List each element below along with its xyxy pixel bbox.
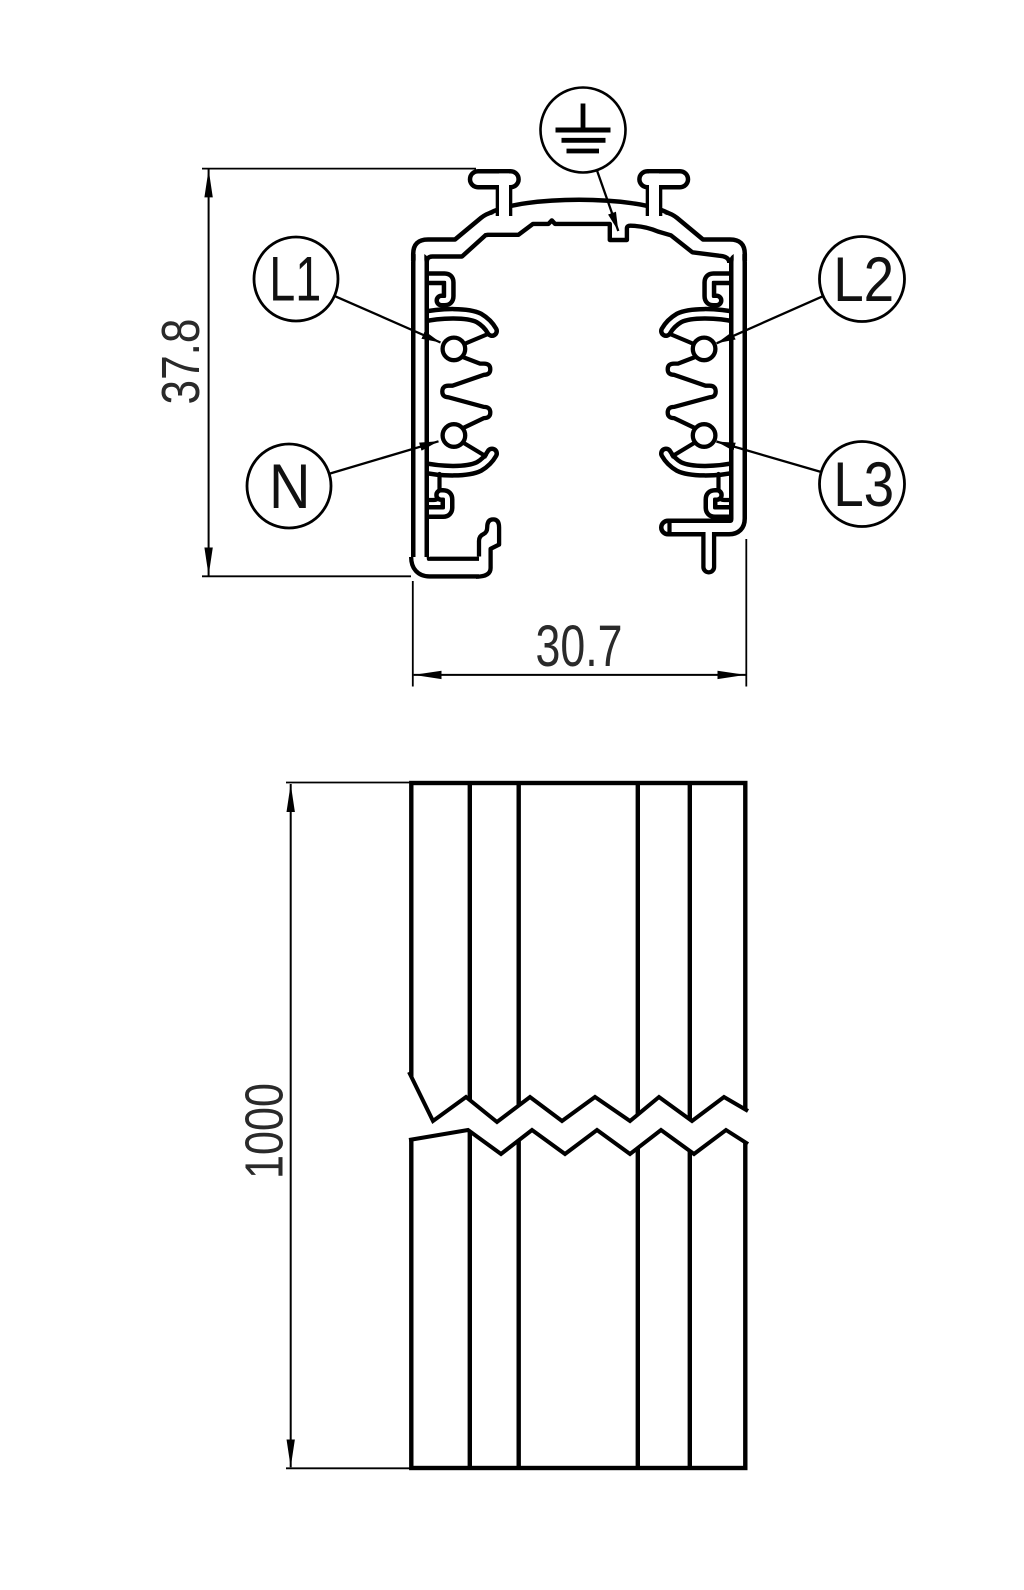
label balloon L1 xyxy=(254,237,338,321)
ground leader arrow xyxy=(597,171,618,232)
wall slot rib (right) xyxy=(719,474,730,500)
label balloon N xyxy=(247,444,331,528)
svg-text:L3: L3 xyxy=(833,450,894,520)
dimension 37.8 xyxy=(202,169,476,577)
arch outer arc line xyxy=(490,200,668,213)
dimension 1000 xyxy=(286,783,411,1469)
right foot stem (white pass) xyxy=(706,528,712,568)
leader L3 xyxy=(716,442,821,473)
dimension 30.7 xyxy=(413,539,747,687)
conductor L2 xyxy=(693,338,716,361)
label balloon L3 xyxy=(820,442,905,527)
conductor L3 xyxy=(693,424,716,447)
wall top cap cleanup patches xyxy=(416,246,425,272)
break line upper xyxy=(409,1072,748,1122)
break line lower xyxy=(409,1130,748,1154)
extrusion left foot bar (black pass) xyxy=(420,557,479,568)
ground symbol balloon xyxy=(541,88,626,173)
label balloon L2 xyxy=(820,237,905,322)
side elevation view of track xyxy=(411,783,745,1468)
extrusion right wall and foot bar (black pass) xyxy=(668,262,738,528)
svg-text:1000: 1000 xyxy=(235,1083,295,1179)
extrusion left wall (white pass) xyxy=(416,262,425,563)
right shoulder outer contour xyxy=(665,212,745,261)
svg-text:N: N xyxy=(269,452,311,522)
upper contact spring fin (right) xyxy=(666,314,738,331)
inner ceiling line with keying notch xyxy=(427,220,730,263)
lower contact spring fin (right) xyxy=(666,454,738,471)
wall slot rib (left) xyxy=(429,474,440,500)
svg-text:30.7: 30.7 xyxy=(536,614,623,679)
leader L2 xyxy=(717,296,824,343)
extrusion left foot bar (white pass) xyxy=(420,557,479,568)
conductor clamp links left xyxy=(463,334,488,457)
left wall insulator fins xyxy=(420,278,492,512)
bottom hook fin (left) xyxy=(420,495,448,512)
conductor N xyxy=(443,424,466,447)
svg-text:L1: L1 xyxy=(269,244,321,314)
right foot bar end inner line xyxy=(667,522,671,534)
left foot right edge and pocket finger xyxy=(476,519,499,576)
leader N xyxy=(330,441,439,473)
mounting tab left (black pass) xyxy=(478,173,511,216)
bottom hook fin (right) xyxy=(711,495,739,512)
svg-text:37.8: 37.8 xyxy=(151,319,211,405)
top hook fin (left) xyxy=(420,278,449,300)
meander spring between conductors (left) xyxy=(442,357,490,429)
right wall insulator fins (mirrored) xyxy=(666,278,738,512)
tab bars (white pass) xyxy=(478,173,511,185)
extrusion right wall and foot bar (white pass) xyxy=(668,262,738,528)
conductor clamp links right xyxy=(670,334,695,457)
left shoulder outer contour xyxy=(413,212,493,261)
meander spring between conductors (right) xyxy=(668,357,716,429)
top hook fin (right) xyxy=(709,278,738,300)
lower contact spring fin (left) xyxy=(420,454,492,471)
tab stems (white pass) xyxy=(499,173,509,216)
upper contact spring fin (left) xyxy=(420,314,492,331)
right foot stem (black pass) xyxy=(701,528,716,568)
svg-text:L2: L2 xyxy=(833,245,894,315)
mounting tab right (black pass) xyxy=(647,173,680,216)
leader L1 xyxy=(334,296,440,343)
conductor L1 xyxy=(443,338,466,361)
extrusion left wall (black pass) xyxy=(411,262,429,563)
break gap xyxy=(409,1072,748,1154)
track profile cross-section xyxy=(413,173,745,576)
